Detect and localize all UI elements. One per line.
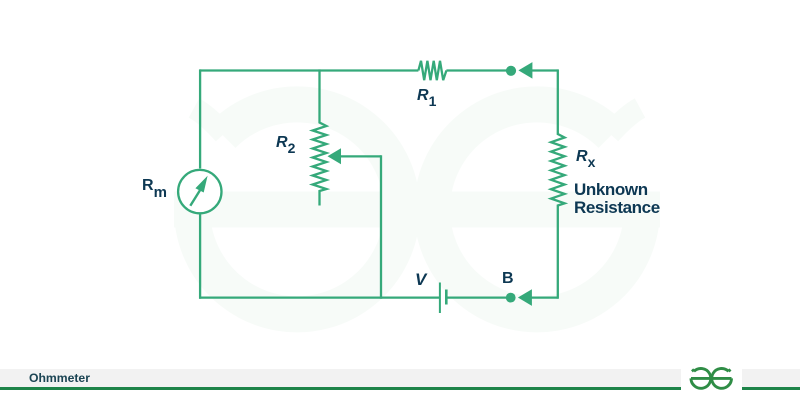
label R1 [417,88,436,109]
wire R2 bottom stub [318,193,320,206]
label V [415,271,426,288]
footer title Ohmmeter [29,372,90,384]
label Unknown Resistance [574,181,660,218]
footer band [0,369,681,388]
wire right rail lower [557,207,559,299]
meter needle arrowhead [195,176,207,193]
wire left rail upper [199,69,201,168]
resistor R2 potentiometer [313,121,327,193]
wire from arrowhead to corner [532,69,558,71]
wire top rail right [446,69,507,71]
label R2 [276,135,295,156]
footer green rule [0,387,681,390]
label Rx [576,149,595,170]
wire from arrowhead B to corner [531,296,558,298]
arrowhead into node B [518,289,532,306]
node junction dot top [506,66,516,76]
GeeksforGeeks logo [687,365,735,391]
meter U1 circle [178,170,221,213]
watermark [174,104,660,314]
wire right rail upper [557,69,559,132]
wire bottom rail right [447,296,507,298]
wire left rail lower [199,215,201,299]
wire top rail [200,69,418,71]
wire wiper horizontal [339,155,381,157]
wire bottom rail left [199,296,439,298]
node B dot [506,293,516,303]
R2 wiper arrowhead [328,148,342,164]
label B [502,271,514,287]
resistor Rx [551,133,565,208]
arrowhead into top node [518,62,532,79]
battery V long plate [439,283,441,314]
meter needle line [190,190,200,206]
label Rm [142,178,167,201]
wire wiper vertical [380,155,382,298]
resistor R1 [418,61,446,80]
battery V short plate [445,290,448,305]
wire R2 branch top [318,69,320,121]
